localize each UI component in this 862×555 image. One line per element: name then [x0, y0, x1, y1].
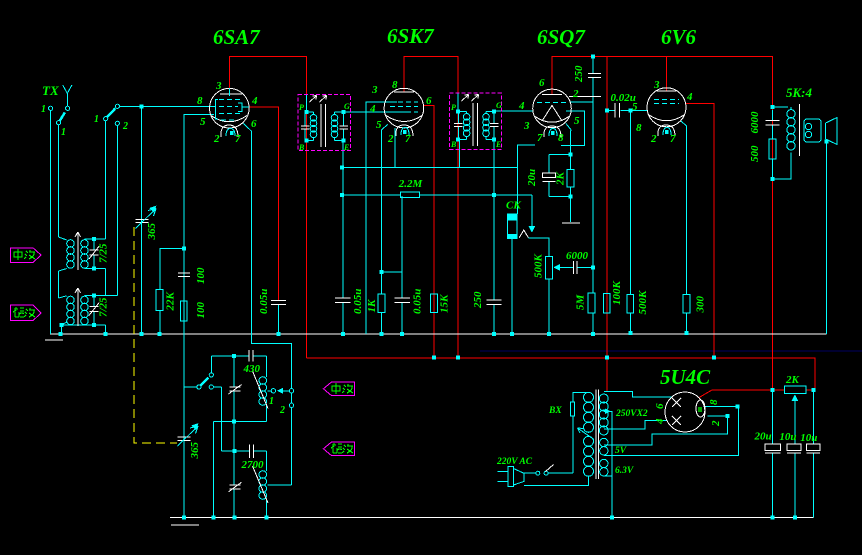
svg-text:7/25: 7/25 — [98, 243, 110, 263]
svg-text:10u: 10u — [800, 432, 817, 444]
svg-text:B: B — [450, 140, 457, 149]
svg-text:6V6: 6V6 — [661, 25, 697, 49]
svg-text:P: P — [299, 103, 304, 112]
svg-text:7: 7 — [537, 132, 543, 144]
svg-text:6: 6 — [539, 77, 545, 89]
svg-text:1: 1 — [269, 396, 274, 407]
svg-text:1K: 1K — [366, 299, 378, 313]
svg-text:20u: 20u — [754, 431, 772, 443]
svg-text:5: 5 — [574, 115, 580, 127]
svg-text:220V AC: 220V AC — [496, 457, 533, 467]
svg-text:430: 430 — [243, 363, 261, 375]
svg-text:20u: 20u — [526, 169, 538, 187]
svg-text:15K: 15K — [439, 294, 451, 313]
svg-text:500K: 500K — [637, 290, 649, 315]
svg-text:4: 4 — [686, 91, 693, 103]
svg-text:2: 2 — [710, 420, 722, 427]
svg-text:0.05u: 0.05u — [352, 289, 364, 314]
svg-text:0.05u: 0.05u — [412, 289, 424, 314]
svg-text:3: 3 — [215, 80, 222, 92]
svg-text:E: E — [343, 143, 349, 152]
svg-text:8: 8 — [392, 79, 398, 91]
svg-text:7/25: 7/25 — [98, 297, 110, 317]
svg-text:6: 6 — [654, 403, 666, 409]
svg-text:2: 2 — [387, 133, 394, 145]
svg-text:3: 3 — [523, 120, 530, 132]
svg-text:5M: 5M — [575, 294, 587, 311]
svg-text:B: B — [298, 143, 305, 152]
svg-text:5U4C: 5U4C — [660, 365, 711, 389]
svg-text:2K: 2K — [555, 172, 567, 187]
svg-text:2: 2 — [122, 121, 128, 132]
svg-text:6.3V: 6.3V — [615, 466, 634, 476]
svg-text:1: 1 — [94, 114, 99, 125]
svg-text:3: 3 — [371, 84, 378, 96]
svg-text:6: 6 — [426, 95, 432, 107]
svg-text:TX: TX — [42, 83, 59, 98]
svg-text:2: 2 — [650, 133, 657, 145]
svg-text:6SK7: 6SK7 — [387, 24, 435, 48]
svg-text:8: 8 — [197, 95, 203, 107]
svg-text:4: 4 — [518, 100, 525, 112]
svg-text:4: 4 — [654, 418, 666, 425]
svg-text:7: 7 — [405, 133, 411, 145]
svg-text:365: 365 — [146, 223, 158, 241]
svg-text:3: 3 — [653, 79, 660, 91]
svg-text:500K: 500K — [533, 254, 545, 279]
svg-text:6000: 6000 — [566, 250, 589, 262]
svg-text:7: 7 — [670, 133, 676, 145]
svg-text:5V: 5V — [615, 446, 627, 456]
svg-text:4: 4 — [251, 95, 258, 107]
svg-text:P: P — [451, 103, 456, 112]
svg-text:G: G — [496, 101, 502, 110]
svg-text:4: 4 — [369, 103, 376, 115]
svg-text:CK: CK — [506, 200, 521, 212]
svg-text:5K:4: 5K:4 — [786, 85, 813, 100]
svg-text:2700: 2700 — [241, 459, 265, 471]
svg-text:8: 8 — [558, 132, 564, 144]
svg-text:100K: 100K — [611, 281, 623, 306]
svg-text:2: 2 — [572, 88, 579, 100]
svg-text:500: 500 — [749, 145, 761, 162]
svg-text:5: 5 — [200, 116, 206, 128]
svg-text:365: 365 — [189, 442, 201, 460]
svg-text:250: 250 — [573, 65, 585, 83]
svg-text:2.2M: 2.2M — [398, 178, 424, 190]
svg-text:250: 250 — [472, 291, 484, 309]
svg-text:8: 8 — [636, 122, 642, 134]
svg-text:2: 2 — [279, 405, 285, 416]
svg-text:6SA7: 6SA7 — [213, 25, 261, 49]
svg-text:5: 5 — [376, 119, 382, 131]
svg-text:250VX2: 250VX2 — [615, 409, 648, 419]
svg-text:0.05u: 0.05u — [258, 289, 270, 314]
svg-text:8: 8 — [708, 399, 720, 405]
svg-text:100: 100 — [195, 267, 207, 284]
svg-text:1: 1 — [41, 104, 46, 115]
svg-text:300: 300 — [695, 296, 707, 314]
svg-text:G: G — [344, 102, 350, 111]
svg-text:2: 2 — [213, 133, 220, 145]
svg-text:5: 5 — [632, 101, 638, 113]
svg-text:E: E — [495, 140, 501, 149]
svg-text:10u: 10u — [779, 431, 796, 443]
svg-text:1: 1 — [61, 127, 66, 138]
svg-text:6SQ7: 6SQ7 — [537, 25, 586, 49]
svg-text:2K: 2K — [785, 374, 800, 386]
svg-text:22K: 22K — [165, 292, 177, 312]
svg-text:6: 6 — [251, 118, 257, 130]
svg-text:7: 7 — [235, 133, 241, 145]
svg-text:6000: 6000 — [749, 111, 761, 134]
svg-text:100: 100 — [195, 302, 207, 319]
svg-text:BX: BX — [548, 406, 562, 416]
